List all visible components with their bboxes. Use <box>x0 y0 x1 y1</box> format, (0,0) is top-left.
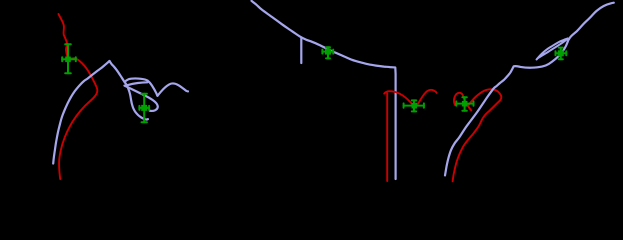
wire: blue track B1 right branch (peak down-right, hook at bottom) <box>110 61 148 120</box>
wire: red vertical leg of R2 <box>386 93 388 181</box>
wire: red track R4 (big arc right of M4, long descent to bottom) <box>453 89 502 181</box>
wire: blue track B1 left branch (peak down to lower-left end) <box>53 61 109 164</box>
wire: red track R1 (top-left wiggle down through marker, bend, long descent) <box>59 14 98 179</box>
marker M6 green error-bar cross at (560.9,52.2) <box>556 48 567 60</box>
wire: blue S-curve upper (junction up to top-right end) <box>569 3 614 40</box>
wire: blue lower strand of wave wedge <box>127 81 148 86</box>
wire: blue diagonal track E (bottom end up to bend, sag, rise to junction) <box>445 40 568 176</box>
wire: blue track B2 (long curve from top centre to corner and vertical drop) <box>252 1 396 179</box>
marker M2 green error-bar cross at (145.5,107.9) <box>139 94 149 123</box>
marker M3 green error-bar cross at (414,105.6) <box>404 100 424 111</box>
marker M1 green error-bar cross at (68,59.3) <box>62 44 76 73</box>
wire: red track R2 (left tail, arc through marker M3, right hook) <box>384 90 436 106</box>
wire: red track R3 (small hook crossing marker M4) <box>454 93 471 111</box>
wire: blue vertical tick T on B2 <box>300 38 302 63</box>
wire: blue diagonal spur D with curl end (left cluster) <box>125 86 158 111</box>
wire: blue wavy track W (branches right from B1, trough and crest) <box>125 78 188 95</box>
marker M5 green error-bar cross at (328,51.6) <box>322 47 333 58</box>
wire: blue leaf loop (narrow loop below S-curve) <box>537 38 568 59</box>
marker M4 green error-bar cross at (464.6,103.6) <box>456 97 473 111</box>
